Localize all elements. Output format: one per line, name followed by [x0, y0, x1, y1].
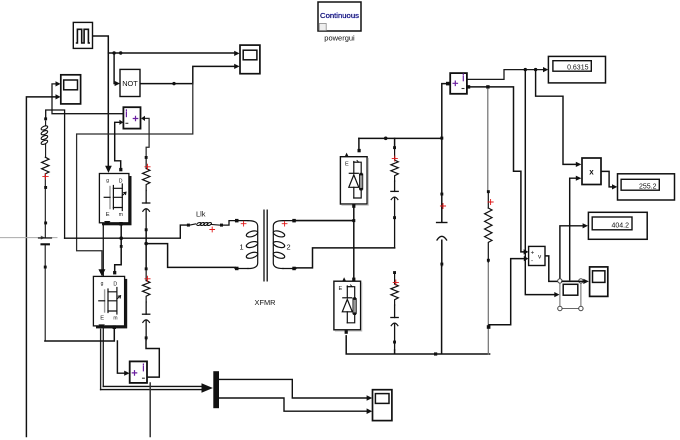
MOSFET Q2 [93, 269, 127, 329]
demux M1 [213, 371, 219, 408]
wire voltage branch to product input 2 [570, 176, 582, 282]
svg-text:m: m [119, 212, 123, 218]
resistor R3 [391, 146, 398, 181]
snubber capacitor C1 [143, 191, 150, 232]
red plus of R5 [43, 174, 48, 179]
svg-text:D: D [113, 282, 117, 288]
svg-text:x: x [589, 168, 594, 177]
voltage measurement V1 [529, 246, 545, 265]
red plus of C3 [440, 203, 445, 208]
svg-text:Llk: Llk [196, 210, 206, 219]
wire current measurement I2 minus to drain of Q1 [115, 120, 124, 168]
wire primary bottom to node of C1 C2 [144, 230, 235, 268]
inductor L1 input filter [41, 117, 49, 157]
wire voltmeter minus tap on load bottom [487, 256, 529, 329]
wire m output of Q1 down to demux [102, 225, 104, 387]
wire inductor Llk to transformer primary plus [223, 221, 235, 226]
powergui block [318, 2, 361, 31]
svg-text:g: g [106, 178, 109, 184]
svg-text:XFMR: XFMR [255, 298, 276, 307]
wire overlay along scope SC5 top [562, 280, 584, 282]
load resistor R6 [485, 190, 492, 262]
svg-text:+: + [531, 250, 535, 257]
inductor Llk [187, 222, 223, 227]
MOSFET Q1 [99, 166, 131, 226]
wire voltage branch to display D3 [560, 223, 588, 281]
wire demux output 2 to scope SC4 input 2 [219, 398, 372, 414]
svg-text:E: E [345, 161, 349, 167]
wire snubber C2 bottom loop to current measurement I3 minus [146, 340, 159, 377]
red plus secondary [282, 221, 287, 226]
resistor R4 [391, 271, 398, 305]
wire load branch bottom lead [487, 262, 489, 354]
wire diode D1 anode rail [359, 137, 443, 149]
wire NOT output branch up to scope SC2 input 2 [193, 64, 240, 84]
snubber resistor R1 [143, 156, 150, 191]
red plus of R6 [488, 199, 493, 204]
wire current measurement I1 plus lead and C3 column [442, 84, 447, 266]
display D3 value 404.2 [588, 212, 647, 239]
resistor R5 input filter [42, 157, 49, 237]
display D2 value 255.2 [618, 174, 675, 200]
current measurement I2 flipped [123, 107, 140, 128]
product block M2 [582, 158, 601, 185]
svg-text:E: E [106, 212, 110, 218]
wire current measurement I2 signal to scope SC1 input 1 [52, 81, 123, 113]
DC voltage source B1 [39, 238, 52, 341]
svg-text:404.2: 404.2 [611, 222, 629, 229]
scope SC2 top middle [240, 45, 260, 74]
svg-text:0.6315: 0.6315 [567, 64, 589, 71]
red plus of R1 [145, 164, 150, 169]
current measurement I1 [450, 73, 467, 94]
transformer XFMR [235, 210, 296, 281]
scope SC5 selected [558, 279, 583, 311]
wire diode D1 cathode to diode D2 anode [353, 208, 355, 278]
wire current measurement I2 plus to snubber R1 C1 [141, 116, 149, 156]
red plus of R4 [393, 280, 398, 285]
wire current branch to scope SC5 [525, 70, 559, 298]
red plus of R3 [392, 156, 397, 161]
svg-text:E: E [339, 286, 343, 292]
diode D1 [340, 149, 368, 208]
NOT gate U1 [120, 69, 140, 96]
wire demux output 1 to scope SC4 input 1 [219, 379, 372, 400]
wire m output of Q2 down to demux [100, 329, 102, 389]
svg-text:-: - [531, 258, 533, 265]
red plus of Llk [210, 227, 215, 232]
wire pulse generator output to gate of Q1 [93, 36, 109, 167]
display D1 value 0.6315 [548, 56, 605, 83]
wire faint left rail stub [0, 236, 57, 240]
wire node Vin top bracket to mid rail [46, 110, 65, 238]
wire transformer secondary bottom to R3 R4 node [295, 248, 394, 268]
red plus primary [241, 221, 246, 226]
wire branch to current measurement I3 plus [117, 341, 129, 376]
capacitor C4 [391, 181, 398, 248]
output capacitor C3 [437, 193, 447, 266]
wire voltmeter output to scope SC6 [545, 256, 589, 284]
snubber capacitor C2 [143, 302, 150, 340]
svg-text:255.2: 255.2 [639, 183, 657, 190]
svg-text:g: g [101, 281, 104, 287]
wire pulse branch to scope SC2 input 1 [108, 51, 239, 56]
svg-text:m: m [113, 315, 117, 321]
wire from bottom edge to scope SC1 input 2 [26, 94, 60, 436]
svg-text:2: 2 [287, 243, 291, 252]
snubber resistor R2 [143, 267, 150, 302]
svg-text:Continuous: Continuous [320, 11, 359, 20]
scope SC6 right [590, 267, 608, 297]
wire load branch top lead [487, 89, 489, 190]
scope SC4 bottom [373, 390, 392, 421]
wire current branch to product input 1 [536, 70, 582, 167]
wire current measurement I3 output down [149, 383, 151, 437]
wire transformer secondary top to diode chain [296, 219, 356, 222]
diode D2 [334, 277, 362, 334]
svg-text:powergui: powergui [324, 34, 355, 43]
current measurement I3 [130, 361, 147, 383]
wire current measurement I1 minus to voltmeter plus [467, 85, 529, 254]
wire mid rail to inductor Llk [65, 225, 187, 238]
svg-text:NOT: NOT [122, 79, 138, 88]
red plus of R2 [145, 276, 150, 281]
wire source of Q2 to battery minus rail [45, 329, 114, 341]
wire into NOT gate U1 [114, 53, 120, 86]
wire source of Q1 to drain of Q2 via mid rail junction [115, 226, 123, 270]
pulse generator P1 [73, 22, 92, 48]
wire thick pair into demux M1 [101, 383, 213, 393]
wire output bottom rail [346, 266, 489, 356]
wire NOT output down-left to gate of Q2 [77, 84, 193, 276]
capacitor C5 [391, 305, 398, 350]
wire NOT output [140, 82, 193, 85]
wire current measurement I1 signal to display D1 [467, 67, 548, 79]
svg-text:1: 1 [240, 243, 244, 252]
scope SC1 top left [61, 75, 81, 104]
svg-text:E: E [100, 315, 104, 321]
wire product output to display D2 [601, 171, 617, 189]
